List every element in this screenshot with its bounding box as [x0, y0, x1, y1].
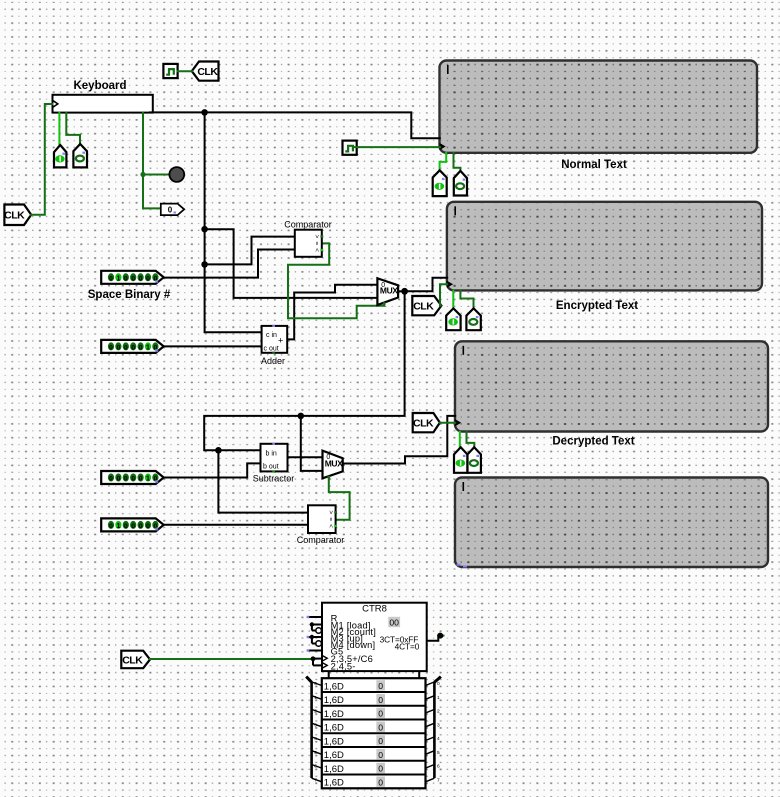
tunnel CLK (top) — [192, 62, 219, 81]
counter pins M1/M2 stubs — [310, 622, 322, 633]
probe PR8 — [468, 447, 481, 473]
register stack flip-flops — [322, 678, 426, 788]
junction subtractor input node — [215, 447, 222, 454]
wire pin P4 to comparator CMP2 input B — [164, 524, 309, 526]
svg-text:Keyboard: Keyboard — [73, 80, 126, 92]
probe PR5 — [446, 308, 460, 330]
counter pin R stub (unconnected) — [309, 616, 322, 618]
junction keyboard available node (green) — [140, 172, 145, 177]
svg-text:<: < — [327, 524, 334, 528]
TTY U4 unconnected input pins (blue) — [457, 564, 461, 566]
clock generator CLK2 — [343, 141, 357, 155]
svg-text:0: 0 — [378, 750, 383, 760]
wire CLK1 to tunnel — [178, 70, 193, 72]
wire keyboard out to probe PR1 (high) — [58, 113, 60, 145]
multiplexer M1 — [377, 278, 398, 305]
svg-text:Decrypted Text: Decrypted Text — [552, 436, 634, 448]
LED D1 — [169, 167, 184, 182]
svg-text:4CT=0: 4CT=0 — [395, 641, 420, 651]
junction encrypted bus node — [298, 413, 305, 420]
wire CLK tunnel to counter clock — [150, 658, 313, 660]
svg-text:CLK: CLK — [413, 301, 434, 313]
wire pin P3 to subtractor input B — [164, 463, 261, 477]
tunnel CLK (counter) — [121, 651, 150, 669]
wire branch to MUX M1 input 1 — [205, 229, 378, 298]
junction node to CMP1 — [201, 261, 208, 268]
svg-text:1,6D: 1,6D — [324, 681, 344, 692]
comparator CMP1 — [295, 230, 323, 257]
svg-text:3: 3 — [437, 722, 440, 728]
svg-text:+: + — [278, 336, 283, 346]
TTY U3 clock pin arrow — [455, 419, 461, 426]
flip-flop FF0 row — [324, 680, 385, 692]
flip-flop FF6 row — [324, 763, 385, 775]
svg-text:1,6D: 1,6D — [324, 695, 344, 706]
TTY U1 clock pin arrow — [440, 143, 446, 150]
counter pins M3/M4 stubs — [307, 635, 322, 647]
svg-text:0: 0 — [378, 722, 383, 732]
svg-text:3: 3 — [314, 722, 317, 728]
svg-text:Subtractor: Subtractor — [253, 474, 295, 484]
svg-text:0: 0 — [131, 275, 135, 282]
svg-text:0: 0 — [117, 344, 121, 351]
svg-text:0: 0 — [378, 777, 383, 787]
svg-text:0: 0 — [131, 476, 135, 483]
multiplexer M2 — [323, 451, 344, 479]
svg-text:6: 6 — [314, 764, 317, 770]
svg-text:2: 2 — [314, 709, 317, 715]
svg-text:1,6D: 1,6D — [324, 778, 344, 789]
TTY display U2 (Encrypted Text) — [447, 202, 762, 291]
svg-text:0: 0 — [168, 205, 173, 214]
probe PR7 — [454, 447, 467, 473]
svg-text:Comparator: Comparator — [284, 219, 332, 229]
splitter SP1 (left) — [306, 677, 322, 784]
svg-text:1,6D: 1,6D — [324, 750, 344, 761]
probe PR1 — [54, 145, 66, 167]
svg-text:>: > — [327, 510, 334, 514]
probe PR6 — [466, 308, 480, 330]
probe PR4 — [454, 171, 467, 196]
flip-flop FF1 row — [324, 694, 385, 706]
wire branch to comparator CMP1 input A — [205, 237, 295, 265]
svg-text:0: 0 — [124, 523, 128, 530]
svg-text:0: 0 — [378, 764, 383, 774]
wire branch to comparator CMP2 input A — [218, 450, 308, 512]
tunnel CLK (encrypted) — [412, 296, 441, 315]
svg-text:=: = — [313, 241, 320, 245]
svg-text:0: 0 — [139, 275, 143, 282]
wire comparator CMP1 equal output to MUX M1 select — [288, 243, 384, 318]
flip-flop FF2 row — [324, 708, 385, 720]
svg-text:0: 0 — [437, 681, 440, 687]
svg-text:0: 0 — [124, 275, 128, 282]
svg-text:0: 0 — [146, 523, 150, 530]
counter pin G5 stub (unconnected) — [309, 650, 322, 652]
svg-text:1: 1 — [116, 273, 120, 282]
svg-text:=: = — [327, 517, 334, 521]
MUX M1 select dot — [383, 302, 386, 305]
flip-flop FF5 row — [324, 749, 385, 761]
input pin P4 value 0100000 — [101, 518, 164, 531]
svg-text:0: 0 — [139, 523, 143, 530]
svg-text:7: 7 — [437, 777, 440, 783]
svg-text:0: 0 — [378, 736, 383, 746]
svg-text:4: 4 — [314, 736, 317, 742]
svg-text:2,4,5-: 2,4,5- — [331, 661, 356, 671]
wire MUX M2 output to TTY U3 data — [343, 416, 456, 464]
svg-text:1,6D: 1,6D — [324, 723, 344, 734]
wire pin P1 to comparator CMP1 input B — [164, 250, 295, 278]
wire keyboard out to probe PR2 — [66, 113, 80, 144]
svg-text:2: 2 — [437, 709, 440, 715]
svg-text:0: 0 — [139, 476, 143, 483]
splitter SP2 (right) — [426, 677, 441, 784]
junction keyboard data node — [201, 109, 208, 116]
svg-text:5: 5 — [314, 750, 317, 756]
wire keyboard bus down to adder input A — [205, 112, 262, 332]
flip-flop FF4 row — [324, 735, 385, 747]
flip-flop FF3 row — [324, 722, 385, 734]
TTY display U1 (Normal Text) — [440, 61, 758, 153]
svg-text:5: 5 — [437, 750, 440, 756]
wire keyboard available to output pin — [143, 113, 161, 209]
wire TTY U1 out to probe PR3 (high) — [440, 153, 447, 170]
counter output stub — [427, 633, 445, 641]
svg-text:0: 0 — [378, 681, 383, 691]
svg-text:7: 7 — [314, 777, 317, 783]
svg-text:c in: c in — [266, 332, 277, 339]
svg-text:0: 0 — [117, 476, 121, 483]
svg-text:<: < — [313, 248, 320, 252]
wire TTY U3 out to probe PR7 (high) — [459, 432, 461, 448]
wire TTY U1 out to probe PR4 — [454, 153, 461, 171]
svg-text:CLK: CLK — [4, 210, 25, 222]
wire MUX M1 output — [398, 290, 405, 292]
svg-text:CLK: CLK — [122, 654, 143, 666]
svg-text:1: 1 — [146, 474, 150, 483]
svg-text:MUX: MUX — [380, 285, 398, 295]
MUX M2 select dot — [327, 476, 330, 479]
wire CLK tunnel to TTY U2 clock — [440, 284, 447, 305]
svg-text:0: 0 — [146, 275, 150, 282]
TTY display U3 (Decrypted Text) — [455, 341, 768, 431]
flip-flop FF7 row — [324, 777, 385, 789]
wire branch to LED — [143, 174, 170, 176]
tunnel CLK (decrypted) — [413, 413, 440, 432]
svg-text:Normal Text: Normal Text — [561, 159, 627, 171]
wire TTY U3 out to probe PR8 — [467, 432, 475, 448]
wire encrypted bus to subtractor input A — [204, 291, 404, 450]
junction node to MUX M1 — [201, 226, 208, 233]
wire comparator CMP2 equal output to MUX M2 select — [329, 478, 350, 520]
counter clock pins bridge — [311, 656, 322, 665]
wire keyboard data to TTY U1 — [150, 112, 440, 138]
svg-text:0: 0 — [378, 695, 383, 705]
clock generator CLK1 — [163, 64, 177, 78]
svg-text:1,6D: 1,6D — [324, 709, 344, 720]
counter CTR8 U5 — [322, 603, 427, 679]
svg-text:b in: b in — [266, 451, 277, 458]
output pin value 0 — [161, 204, 184, 216]
tunnel CLK (left) — [4, 205, 31, 226]
svg-text:CLK: CLK — [413, 418, 434, 430]
svg-text:1: 1 — [146, 343, 150, 352]
wire TTY U2 out to probe PR6 — [460, 291, 473, 309]
input pin P2 value 0000010 — [101, 340, 164, 353]
wire subtractor output to MUX M2 input 0 — [288, 456, 323, 458]
wire CLK tunnel to keyboard clock — [31, 104, 53, 215]
svg-text:c out: c out — [264, 346, 279, 353]
svg-text:0: 0 — [131, 344, 135, 351]
svg-text:Space Binary #: Space Binary # — [88, 289, 171, 301]
wire branch to MUX M2 input 1 — [301, 416, 323, 471]
wire pin P2 to adder input B — [164, 345, 262, 347]
subtractor S1 — [261, 443, 288, 473]
svg-text:4: 4 — [437, 736, 440, 742]
probe PR3 — [433, 170, 447, 196]
junction MUX M1 output node — [401, 288, 408, 295]
svg-text:0: 0 — [109, 523, 113, 530]
TTY display U4 — [455, 478, 768, 568]
svg-text:0: 0 — [378, 709, 383, 719]
svg-text:MUX: MUX — [325, 459, 343, 469]
svg-text:0: 0 — [314, 681, 317, 687]
svg-text:>: > — [313, 235, 320, 239]
svg-text:1: 1 — [116, 521, 120, 530]
wire TTY U2 out to probe PR5 (high) — [452, 291, 454, 309]
svg-text:0: 0 — [124, 476, 128, 483]
svg-text:1,6D: 1,6D — [324, 764, 344, 775]
keyboard KB1 — [53, 95, 153, 113]
svg-text:Encrypted Text: Encrypted Text — [556, 300, 638, 312]
svg-text:1: 1 — [314, 695, 317, 701]
adder A1 — [262, 325, 288, 354]
svg-text:0: 0 — [124, 344, 128, 351]
wire CLK tunnel to TTY U3 clock — [440, 422, 455, 424]
svg-text:0: 0 — [109, 275, 113, 282]
input pin P3 value 0000010 — [101, 471, 164, 484]
wire adder output to MUX M1 input 0 — [287, 285, 377, 340]
input pin P1 value 0100000 — [101, 271, 164, 284]
svg-text:6: 6 — [437, 764, 440, 770]
svg-text:00: 00 — [389, 618, 399, 628]
svg-text:1: 1 — [437, 695, 440, 701]
svg-text:0: 0 — [109, 476, 113, 483]
svg-text:CTR8: CTR8 — [362, 604, 387, 615]
svg-text:b out: b out — [263, 464, 279, 471]
svg-text:CLK: CLK — [197, 66, 218, 78]
svg-text:Adder: Adder — [261, 356, 285, 366]
TTY U2 clock pin arrow — [447, 281, 453, 288]
wire MUX M1 output to TTY U2 data — [405, 278, 448, 292]
svg-text:Comparator: Comparator — [297, 535, 345, 545]
svg-text:0: 0 — [109, 344, 113, 351]
svg-text:0: 0 — [131, 523, 135, 530]
comparator CMP2 — [308, 505, 337, 533]
wire CLK2 to TTY U1 clock — [355, 146, 440, 148]
svg-text:0: 0 — [139, 344, 143, 351]
svg-text:1,6D: 1,6D — [324, 736, 344, 747]
probe PR2 — [73, 144, 87, 167]
